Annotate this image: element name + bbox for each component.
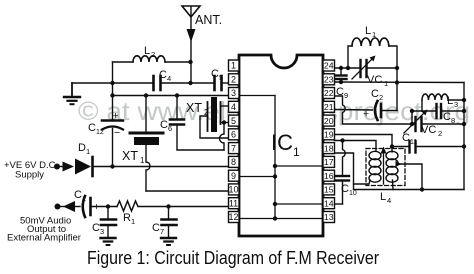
svg-text:C: C [92, 222, 100, 234]
svg-text:24: 24 [324, 61, 334, 71]
svg-text:L: L [365, 25, 371, 37]
wire pin 19 lower route to L4 primary [335, 141, 377, 152]
pin 15 [323, 184, 335, 195]
svg-text:2: 2 [231, 75, 236, 85]
svg-text:10: 10 [228, 185, 238, 195]
svg-text:18: 18 [324, 143, 334, 153]
node L1/VC1 right junction [395, 66, 399, 70]
svg-text:L: L [447, 95, 453, 107]
pin 16 [323, 170, 335, 181]
output terminal [55, 204, 61, 210]
svg-text:2: 2 [438, 129, 442, 138]
svg-text:4: 4 [387, 196, 391, 205]
svg-text:1: 1 [384, 79, 388, 88]
node x397/top-bus junction [395, 80, 399, 84]
svg-text:11: 11 [410, 139, 417, 146]
wire L4 tap to bottom bus [400, 164, 422, 190]
svg-text:+: + [363, 108, 369, 120]
pin 13 [323, 212, 335, 223]
svg-text:6: 6 [231, 130, 236, 140]
node ANT/L2 junction [188, 60, 192, 64]
svg-text:20: 20 [324, 116, 334, 126]
node tap/bottom-bus junction [420, 187, 424, 191]
arrow input [63, 162, 75, 172]
node C3 branch [106, 204, 110, 208]
pin 14 [323, 198, 335, 209]
svg-text:1: 1 [231, 61, 236, 71]
pin 11 [229, 198, 240, 209]
svg-text:−: − [70, 203, 76, 215]
pin 3 [229, 88, 240, 99]
svg-text:C: C [341, 183, 349, 195]
arrow output (points left) [63, 201, 75, 212]
wire junction to pin 8 with hop over XT1 lead [113, 166, 229, 168]
node C7 branch [166, 204, 170, 208]
capacitor C6 [160, 96, 184, 134]
svg-text:17: 17 [324, 157, 334, 167]
svg-text:1: 1 [293, 145, 300, 159]
wire VC1 to right node [367, 67, 397, 69]
svg-text:L: L [380, 191, 386, 203]
wire pin 24 to VC1/L1 [335, 67, 361, 69]
ground (under C3) [101, 238, 116, 245]
supply terminal [54, 164, 60, 170]
svg-text:C: C [443, 111, 451, 123]
capacitor C12 [88, 110, 123, 167]
svg-text:22: 22 [324, 88, 334, 98]
pin 8 [229, 156, 240, 167]
pin 22 [323, 88, 335, 99]
wire L3 stub x=412 [411, 111, 413, 124]
node VC2/L3 stub junction [410, 122, 414, 126]
svg-text:14: 14 [324, 198, 334, 208]
wire left bus vertical x=112.5 [112, 62, 114, 120]
svg-text:7: 7 [160, 227, 164, 236]
wire L4 secondary top stub [391, 147, 393, 153]
wire C2 right to x397 node [382, 110, 398, 112]
pin 5 [229, 115, 240, 126]
svg-text:C: C [371, 88, 379, 100]
pin 2 [229, 74, 240, 85]
wire XT1 bottom to pin 10 [146, 190, 229, 192]
node bus/ground-wire junction [110, 81, 114, 85]
wire D1 to junction [94, 166, 113, 168]
node ANT/C4 junction [188, 81, 192, 85]
IC pin boxes [228, 60, 334, 223]
node internal pin17 junction [273, 164, 277, 168]
svg-text:8: 8 [231, 157, 236, 167]
node bus/C8 junction [462, 109, 466, 113]
svg-text:−: − [114, 127, 120, 139]
wire VC2 to right bus [422, 123, 464, 125]
wire pin 19 upper route to C11 wire [335, 135, 393, 147]
svg-text:C: C [88, 122, 96, 134]
variable capacitor VC1 [352, 56, 388, 89]
pin 24 [323, 60, 335, 71]
svg-text:C: C [160, 119, 168, 131]
node C9 bottom junction [339, 80, 343, 84]
wire internal pin12 to pin13 [241, 218, 323, 220]
svg-text:12: 12 [96, 129, 104, 136]
svg-text:ANT.: ANT. [195, 13, 222, 27]
wire R1 to pin 11 [139, 206, 229, 208]
svg-text:9: 9 [344, 91, 348, 100]
wire C10 bottom to pin 14 [335, 203, 343, 205]
svg-text:VC: VC [421, 124, 436, 136]
svg-text:9: 9 [231, 171, 236, 181]
node C6 branch [175, 93, 179, 97]
pin 7 [229, 143, 240, 154]
svg-text:XT: XT [186, 101, 202, 115]
pin 6 [229, 129, 240, 140]
wire internal pin9 tap [241, 176, 276, 178]
svg-text:R: R [123, 212, 131, 224]
wire C1 to R1 [91, 206, 117, 208]
wire pin 23 to top bus [335, 81, 465, 84]
pin 10 [229, 184, 240, 195]
variable capacitor VC2 [404, 110, 442, 139]
wire terminal to arrow [58, 206, 65, 208]
svg-text:Figure 1: Circuit Diagram of F: Figure 1: Circuit Diagram of F.M Receive… [87, 248, 379, 268]
svg-text:7: 7 [231, 143, 236, 153]
node pin5/C6 branch junction [222, 120, 226, 124]
wire L4 secondary bottom [392, 180, 395, 190]
antenna [182, 6, 200, 42]
text labels left [4, 13, 222, 244]
node internal pin9 junction [273, 174, 277, 178]
svg-text:3: 3 [454, 100, 458, 109]
svg-text:15: 15 [324, 185, 334, 195]
svg-text:4: 4 [167, 74, 171, 83]
wire C6 bottom to XT2 branch [177, 125, 224, 150]
capacitor C10 [336, 141, 357, 205]
inductor L2 [113, 45, 191, 62]
wire pin5 branch down with hop to C6 wire [220, 123, 225, 151]
svg-text:C: C [211, 68, 219, 80]
wire terminal to arrow [57, 166, 63, 168]
pin 9 [229, 170, 240, 181]
wire pin 18 route with hop to bottom bus [335, 153, 465, 190]
capacitor C4 [154, 69, 172, 90]
svg-text:2: 2 [151, 50, 155, 59]
capacitor C1 [70, 189, 100, 217]
transformer L4 [366, 147, 405, 206]
capacitor C2 [363, 88, 383, 120]
svg-text:3: 3 [231, 88, 236, 98]
wire ground to C4 to C5 to pin2 (y=83) [72, 82, 229, 84]
node XT1 branch [144, 93, 148, 97]
ground (top-left) [64, 83, 80, 104]
node internal pin12/13 junction [273, 216, 277, 220]
wire top bus corner and right bus x=464 [463, 83, 465, 190]
wire antenna down-line [190, 40, 192, 83]
pin 20 [323, 115, 335, 126]
node C10 top junction [340, 138, 344, 142]
svg-text:21: 21 [324, 102, 334, 112]
wire L4 primary bottom [354, 180, 371, 184]
svg-text:4: 4 [231, 102, 236, 112]
svg-text:1: 1 [372, 30, 376, 39]
svg-text:6: 6 [168, 124, 172, 133]
crystal XT1 [122, 96, 163, 192]
svg-text:External Amplifier: External Amplifier [7, 233, 81, 244]
wire to pin 3 (y=95.5) [113, 95, 229, 97]
svg-text:1: 1 [140, 156, 145, 165]
node L1 left junction [346, 66, 350, 70]
svg-text:1: 1 [131, 217, 135, 226]
node bus/L3 junction [462, 98, 466, 102]
wire internal pin3 tap [241, 95, 276, 97]
svg-text:C: C [152, 222, 160, 234]
svg-text:5: 5 [219, 73, 223, 82]
inductor L3 [422, 94, 464, 111]
pin 4 [229, 101, 240, 112]
capacitor C3 [92, 207, 116, 238]
svg-text:23: 23 [324, 75, 334, 85]
svg-text:Supply: Supply [15, 170, 44, 181]
wire XT2 left electrode to pin 6 [200, 116, 229, 138]
svg-text:VC: VC [367, 74, 382, 86]
capacitor C5 [211, 68, 223, 90]
svg-text:IC: IC [271, 130, 293, 155]
inductor L1 [348, 25, 397, 68]
node C9 top junction [339, 66, 343, 70]
wire internal pin14 tap [275, 203, 322, 205]
pin 19 [323, 129, 335, 140]
wire internal bus vertical [274, 96, 276, 219]
svg-text:L: L [144, 45, 150, 57]
pin 23 [323, 74, 335, 85]
wire XT2 right electrode to pin 5 [221, 122, 229, 124]
svg-text:16: 16 [324, 171, 334, 181]
svg-text:13: 13 [324, 212, 334, 222]
svg-text:8: 8 [451, 116, 455, 125]
svg-text:XT: XT [122, 149, 138, 163]
svg-text:10: 10 [349, 190, 357, 197]
svg-text:3: 3 [100, 227, 104, 236]
pin 21 [323, 101, 335, 112]
resistor R1 [117, 201, 138, 226]
diode D1 [75, 142, 93, 176]
node bus/VC2 junction [462, 122, 466, 126]
node secondary-top/C11 junction [390, 144, 394, 148]
svg-text:C: C [159, 69, 167, 81]
crystal XT2 [186, 97, 221, 132]
svg-text:19: 19 [324, 130, 334, 140]
wire right node vertical x=397 [396, 68, 398, 111]
wire pin 22 route to VC2 [335, 96, 416, 124]
wire arrow to C1 [75, 206, 80, 208]
svg-text:11: 11 [229, 198, 238, 208]
svg-text:+: + [113, 110, 119, 122]
svg-text:C: C [74, 189, 82, 201]
svg-text:2: 2 [379, 93, 383, 102]
node bus/C11 junction [462, 144, 466, 148]
wire pin 21 with hop to C2 [335, 109, 373, 112]
node internal pin14 junction [273, 202, 277, 206]
node bus/pin3-wire junction [110, 93, 114, 97]
svg-text:C: C [402, 132, 410, 144]
svg-text:12: 12 [228, 212, 238, 222]
svg-text:D: D [78, 142, 86, 154]
wire XT2 right electrode to pin 4 [221, 105, 229, 107]
svg-text:5: 5 [231, 116, 236, 126]
wire internal pin17 tap [275, 165, 322, 167]
arrow L4 tap [396, 161, 402, 167]
pin 1 [229, 60, 240, 71]
svg-text:1: 1 [82, 194, 86, 203]
ground (under C7) [161, 238, 176, 245]
svg-text:1: 1 [86, 147, 90, 156]
node C8-wire/stub junction [410, 109, 414, 113]
pin 18 [323, 143, 335, 154]
pin 12 [229, 212, 240, 223]
pin 17 [323, 156, 335, 167]
capacitor C11 [392, 132, 464, 153]
capacitor C8 [412, 104, 464, 125]
op-amp IC1 body [239, 55, 323, 236]
node D1/C12/pin8 junction [110, 164, 114, 168]
capacitor C9 [336, 68, 348, 100]
capacitor C7 [152, 207, 177, 238]
